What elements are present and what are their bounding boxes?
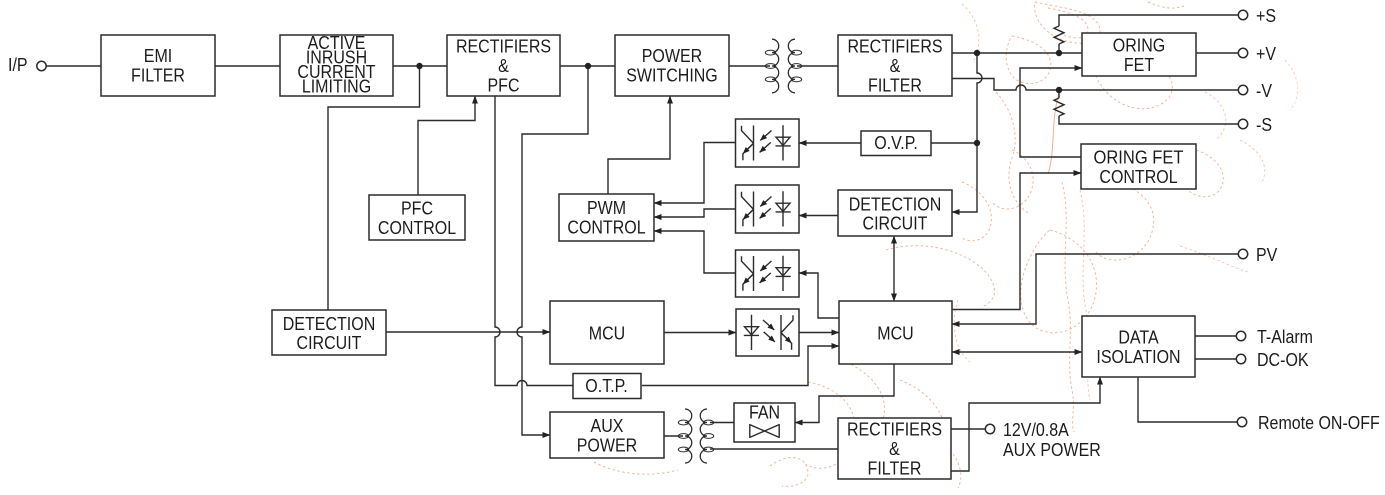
- optocoupler U2 box: [736, 185, 800, 233]
- terminal +V: [1238, 48, 1247, 57]
- svg-text:AUX POWER: AUX POWER: [1003, 439, 1101, 460]
- wire -V rail from RECTIFIERS&FILTER: [952, 79, 1239, 91]
- transformer T1 secondary winding: [788, 39, 795, 93]
- block PFC CONTROL: [369, 195, 465, 240]
- wire DATA ISOLATION to Remote ON-OFF terminal: [1138, 377, 1238, 422]
- svg-text:&: &: [889, 438, 900, 459]
- svg-text:EMI: EMI: [144, 45, 173, 66]
- wire -S line with resistor leads: [1059, 90, 1239, 124]
- svg-text:12V/0.8A: 12V/0.8A: [1003, 419, 1069, 440]
- wire transformer T2 to RECTIFIERS&FILTER aux: [710, 448, 838, 450]
- node F junction on -V rail: [1056, 87, 1062, 93]
- optocoupler U1 internals: [742, 125, 791, 160]
- resistor R1 between +S and +V: [1054, 26, 1064, 44]
- wire PFC CONTROL to RECTIFIERS&PFC: [418, 96, 475, 195]
- node C junction on +V rail: [974, 50, 980, 56]
- wire RECTIFIERS&PFC down to O.T.P.: [495, 96, 573, 386]
- svg-text:CIRCUIT: CIRCUIT: [297, 332, 362, 353]
- terminal DC-OK: [1236, 354, 1245, 363]
- WATERMARK: [594, 2, 1298, 488]
- svg-text:&: &: [498, 55, 509, 76]
- node E junction at O.V.P.: [974, 140, 980, 146]
- svg-text:CONTROL: CONTROL: [1099, 166, 1177, 187]
- svg-text:FAN: FAN: [749, 402, 780, 423]
- svg-text:MCU: MCU: [877, 322, 913, 343]
- transformer T2 primary winding: [685, 409, 692, 463]
- transformer T1 primary winding: [772, 39, 779, 93]
- wire optocoupler U4 to MCU right: [799, 332, 839, 334]
- wire O.V.P. to node C: [931, 142, 977, 144]
- wire DATA ISOLATION to DC-OK terminal: [1195, 358, 1237, 360]
- wire DETECTION CIRCUIT left to MCU: [386, 331, 550, 333]
- terminal 12V aux: [985, 424, 994, 433]
- block ORING FET: [1082, 33, 1196, 76]
- wire PV terminal to MCU right: [952, 254, 1239, 324]
- terminal -V: [1238, 85, 1247, 94]
- svg-text:Remote ON-OFF: Remote ON-OFF: [1258, 412, 1380, 433]
- svg-text:I/P: I/P: [8, 54, 28, 75]
- svg-text:RECTIFIERS: RECTIFIERS: [847, 419, 942, 440]
- svg-text:RECTIFIERS: RECTIFIERS: [456, 36, 551, 57]
- svg-text:FILTER: FILTER: [868, 458, 922, 479]
- svg-text:SWITCHING: SWITCHING: [626, 65, 718, 86]
- wire PWM CONTROL to POWER SWITCHING: [608, 96, 670, 194]
- terminal T-Alarm: [1236, 331, 1245, 340]
- wire node B down to AUX POWER: [517, 66, 588, 435]
- block AUX POWER: [550, 412, 664, 458]
- svg-text:T-Alarm: T-Alarm: [1257, 326, 1313, 347]
- block O.V.P.: [861, 131, 931, 156]
- svg-text:CONTROL: CONTROL: [378, 217, 456, 238]
- svg-text:DATA: DATA: [1118, 327, 1159, 348]
- wire EMI FILTER to ACTIVE INRUSH: [215, 65, 280, 67]
- block RECTIFIERS & PFC: [447, 35, 560, 96]
- svg-text:PV: PV: [1256, 244, 1278, 265]
- terminal PV: [1238, 249, 1247, 258]
- block MCU left: [550, 301, 664, 364]
- svg-text:DETECTION: DETECTION: [849, 193, 942, 214]
- svg-text:MCU: MCU: [589, 322, 625, 343]
- wire optocoupler U2 to PWM CONTROL: [654, 209, 736, 217]
- block EMI FILTER: [101, 35, 215, 96]
- svg-text:FILTER: FILTER: [868, 75, 922, 96]
- resistor R2 between -V and -S: [1054, 98, 1064, 116]
- block PWM CONTROL: [559, 194, 654, 241]
- wire I/P to EMI FILTER: [46, 65, 101, 67]
- svg-text:ORING: ORING: [1113, 35, 1166, 56]
- svg-text:CONTROL: CONTROL: [567, 217, 645, 238]
- wire MCU right to DATA ISOLATION (both arrows): [952, 351, 1082, 353]
- block MCU right: [839, 301, 952, 364]
- block DETECTION CIRCUIT right: [838, 190, 952, 236]
- block POWER SWITCHING: [615, 35, 729, 96]
- wire ORING FET CONTROL to ORING FET gate: [1020, 68, 1082, 157]
- block RECTIFIERS & FILTER: [838, 35, 952, 96]
- svg-text:DC-OK: DC-OK: [1257, 349, 1309, 370]
- wire transformer T2 to FAN: [710, 422, 734, 424]
- svg-text:ORING FET: ORING FET: [1094, 147, 1184, 168]
- fan blades symbol: [750, 425, 779, 438]
- wire AUX POWER to transformer T2: [664, 435, 683, 437]
- wire POWER SWITCHING to transformer T1: [729, 65, 770, 67]
- wire optocoupler U1 to PWM CONTROL: [654, 143, 736, 204]
- svg-text:ISOLATION: ISOLATION: [1096, 346, 1180, 367]
- svg-text:AUX: AUX: [591, 415, 624, 436]
- svg-text:RECTIFIERS: RECTIFIERS: [847, 36, 942, 57]
- svg-text:-S: -S: [1256, 114, 1272, 135]
- terminal -S: [1238, 119, 1247, 128]
- wire node C down to DETECTION CIRCUIT right: [952, 53, 982, 212]
- JUNCTION DOTS: [416, 50, 1062, 146]
- wire O.T.P. to MCU right: [642, 346, 839, 386]
- terminal +S: [1238, 10, 1247, 19]
- wire DATA ISOLATION to T-Alarm terminal: [1195, 335, 1237, 337]
- svg-text:CIRCUIT: CIRCUIT: [863, 213, 928, 234]
- block RECTIFIERS & FILTER aux: [838, 418, 951, 479]
- svg-text:+S: +S: [1256, 5, 1276, 26]
- svg-text:POWER: POWER: [642, 45, 703, 66]
- wire ACTIVE INRUSH to RECTIFIERS&PFC: [393, 65, 447, 67]
- svg-text:POWER: POWER: [577, 434, 638, 455]
- wire RECTIFIERS&FILTER aux to 12V terminal: [951, 428, 986, 430]
- wire node A down to DETECTION CIRCUIT left: [328, 66, 420, 310]
- optocoupler U1 box: [736, 119, 800, 167]
- BOXES: [101, 33, 1196, 479]
- wire RECTIFIERS&FILTER aux to DATA ISOLATION: [951, 377, 1100, 471]
- wire DETECTION CIRCUIT right to optocoupler U2: [799, 215, 838, 217]
- svg-text:&: &: [890, 55, 901, 76]
- svg-text:DETECTION: DETECTION: [283, 313, 376, 334]
- block FAN: [734, 403, 795, 442]
- wire O.V.P. to optocoupler U1: [799, 142, 861, 144]
- optocoupler U3 box: [736, 250, 800, 297]
- wire MCU to optocoupler U4: [664, 332, 736, 334]
- wire MCU right to ORING FET CONTROL: [952, 173, 1081, 310]
- svg-text:PFC: PFC: [488, 75, 520, 96]
- svg-text:O.T.P.: O.T.P.: [585, 375, 627, 396]
- svg-text:-V: -V: [1256, 80, 1273, 101]
- wire transformer T1 to RECTIFIERS&FILTER: [797, 65, 838, 67]
- terminal I/P: [37, 61, 46, 70]
- node A junction: [416, 63, 422, 69]
- optocoupler U3 internals: [742, 256, 791, 291]
- block O.T.P.: [573, 374, 641, 399]
- block DATA ISOLATION: [1082, 316, 1195, 377]
- svg-text:PFC: PFC: [401, 197, 433, 218]
- wire ORING FET to +V terminal: [1196, 52, 1239, 54]
- wire MCU to FAN: [795, 363, 894, 423]
- optocoupler U2 internals: [742, 191, 791, 226]
- terminal Remote ON-OFF: [1237, 417, 1246, 426]
- node D junction on +V rail: [1056, 50, 1062, 56]
- wire DETECTION CIRCUIT right to MCU right (both arrows): [893, 236, 895, 301]
- node B junction: [585, 63, 591, 69]
- wire RECTIFIERS&PFC to POWER SWITCHING: [560, 65, 615, 67]
- optocoupler U4 box: [736, 309, 799, 356]
- block ACTIVE INRUSH CURRENT LIMITING: [280, 35, 393, 96]
- block ORING FET CONTROL: [1081, 144, 1196, 189]
- svg-text:O.V.P.: O.V.P.: [874, 132, 918, 153]
- svg-text:FILTER: FILTER: [131, 65, 185, 86]
- wire +S line with resistor leads: [1059, 15, 1239, 53]
- svg-text:+V: +V: [1256, 43, 1277, 64]
- block DETECTION CIRCUIT left: [272, 310, 386, 355]
- svg-text:LIMITING: LIMITING: [302, 76, 371, 97]
- svg-text:FET: FET: [1124, 54, 1154, 75]
- wire MCU right to optocoupler U3: [799, 273, 839, 318]
- optocoupler U4 internals (mirrored): [744, 315, 793, 350]
- wire optocoupler U3 to PWM CONTROL: [654, 231, 736, 273]
- wire +V rail from RECTIFIERS&FILTER to ORING FET: [952, 52, 1082, 54]
- svg-text:PWM: PWM: [587, 197, 626, 218]
- transformer T2 secondary winding: [700, 409, 707, 463]
